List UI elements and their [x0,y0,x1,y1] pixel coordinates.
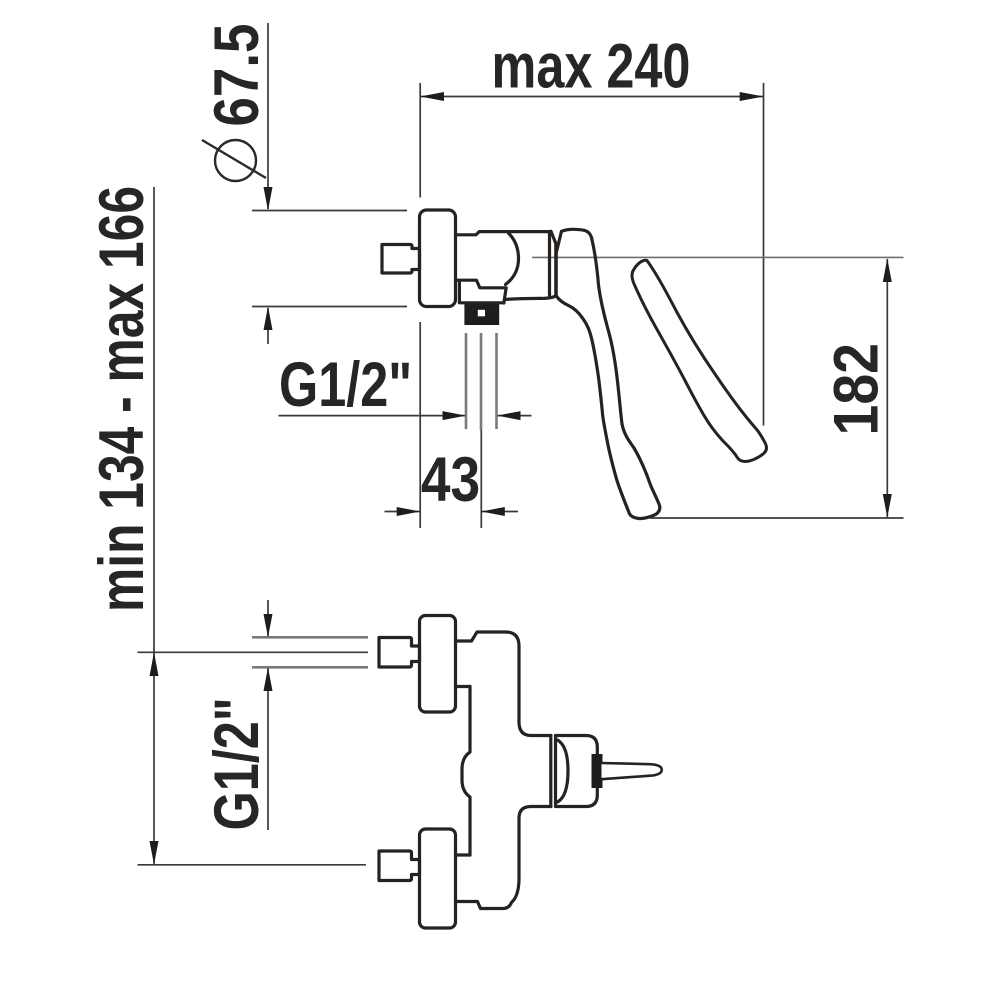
arrow min/max down [150,841,159,865]
arrow O67.5 up [264,307,273,331]
extension/pipe centerline bottom connection [138,864,367,866]
cartridge dome joint [506,233,519,284]
dimension line 182 [886,259,888,517]
dimension max 240 line [420,96,763,98]
dimension line O67.5 lower [267,308,269,344]
cartridge dome (plan) [558,740,569,802]
body rear bottom edge [505,298,540,299]
extension line 182 bottom [650,517,904,519]
diameter symbol circle [215,140,256,181]
arrow O67.5 down [264,187,273,211]
svg-text:G1/2": G1/2" [202,697,273,830]
diameter symbol slash [202,140,266,178]
escutcheon bottom connection [420,829,456,928]
wall plug side view [382,245,420,274]
arrow G1/2 bottom down-pointing [264,614,273,637]
arrow max240 left [420,92,444,101]
wall plug bottom connection [379,851,420,881]
arrow 43 left-pointing [481,507,505,516]
dimension line G1/2 bottom lower segment [267,668,269,830]
handle stem black neck [592,755,602,788]
extension line O67.5 bottom [252,306,407,308]
svg-text:min 134 - max 166: min 134 - max 166 [88,186,158,612]
thread line right [495,333,498,429]
svg-text:182: 182 [820,343,891,435]
thread lines shower outlet (side view) [252,333,497,667]
extension line right (handle tip) [763,83,765,426]
svg-text:max 240: max 240 [492,31,691,102]
dimension 43 line left segment [385,511,421,513]
extension line 43 right [480,430,482,528]
lever rod (plan) [602,763,662,779]
arrow 182 up [883,259,892,283]
outlet chin left edge and nipple top edge [459,282,504,303]
cartridge ring line 2 with top bevel [551,231,556,294]
leader G1/2 side left segment [279,415,467,417]
arrow G1/2 side left-pointing [497,411,521,420]
escutcheon side view [420,210,456,307]
arrow 182 down [883,494,892,518]
arrow G1/2 side right-pointing [443,411,467,420]
extension line 43 left [419,322,421,528]
ghost handle position 2 [632,260,766,461]
collar top connection [456,685,471,688]
extension line left (wall face) [419,83,421,198]
arrow min/max up [150,652,159,676]
handle neck underside corner [540,296,556,299]
collar bottom connection [456,853,471,856]
dimension line O67.5 upper [267,23,269,209]
pipe OD line top connection lower [252,666,368,669]
dimension line G1/2 bottom upper segment [267,600,269,637]
svg-text:43: 43 [421,445,480,515]
collar top edge merging into body top edge [456,232,552,235]
collar bottom edge, body bottom front edge and outlet chamfer [456,280,507,303]
handle base bell (plan) [556,736,598,807]
thread line left [465,333,468,429]
centerline of body (side view) [532,256,904,258]
handle lever side view [556,229,660,518]
nipple white hole [478,310,485,317]
shower outlet nipple (black) [465,304,499,325]
arrow max240 right [740,92,764,101]
wall plug top connection [379,638,420,668]
svg-text:67.5: 67.5 [202,24,272,127]
arrow 43 right-pointing [397,507,421,516]
arrow G1/2 bottom up-pointing [264,667,273,691]
body slab outline [456,632,552,909]
svg-text:G1/2": G1/2" [279,350,412,421]
cartridge ring line 1 [548,233,551,297]
extension line O67.5 top [252,210,407,212]
pipe OD line top connection upper [252,636,368,639]
dimension line min134-max166 [153,187,155,865]
dimension 43 line right segment [481,511,518,513]
thread line middle [480,333,483,430]
extension/pipe centerline top connection [138,651,369,653]
cartridge joint line 2 (plan) [554,737,557,805]
escutcheon top connection [420,616,456,713]
cartridge joint line 1 (plan) [549,736,552,807]
leader G1/2 side right segment [497,415,532,417]
